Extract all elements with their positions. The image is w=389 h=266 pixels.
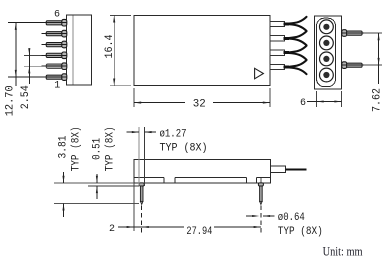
dim 3.81 upper leader: [63, 172, 65, 183]
socket hole 3: [320, 52, 334, 66]
top pin row 1 pad: [270, 21, 285, 26]
connector pin B lead: [347, 63, 363, 67]
side pin right lead: [260, 186, 263, 201]
top pin row 4 wire stem: [284, 66, 290, 69]
dim 2 extension body edge: [133, 183, 135, 231]
dim 27.94 arrow left: [142, 226, 149, 228]
top pin row 3 pad: [270, 50, 285, 55]
dim 2 span line: [134, 226, 142, 228]
top view body: [134, 15, 270, 85]
dim 0.64 right leader: [263, 215, 275, 217]
svg-text:3.81: 3.81: [57, 136, 69, 159]
dim 16.4 extension bottom: [110, 85, 131, 87]
dim 2 arrow right-pointing: [127, 226, 134, 228]
dim 2.54 extension bottom: [24, 65, 42, 67]
dim 12.70 line: [15, 23, 17, 86]
svg-text:0.51: 0.51: [91, 138, 103, 160]
dim 27.94 line right: [214, 226, 261, 228]
svg-text:2.54: 2.54: [20, 85, 32, 109]
top pin row 1 wire upper: [289, 17, 307, 24]
dim 1.27 extension right: [143, 127, 145, 186]
pin 2 centerline overlay: [42, 65, 67, 67]
dim 3.81 arrow up: [62, 203, 64, 210]
pin 1 collar: [62, 74, 67, 81]
top pin row 2 wire lower: [289, 39, 307, 46]
top pin row 3 wire stem: [284, 51, 290, 54]
pin 1 centerline overlay: [8, 76, 66, 78]
dim 0.64 arrow left-pointing: [263, 215, 270, 217]
top pin row 1 wire stem: [284, 22, 290, 25]
side view seam middle: [175, 176, 247, 178]
dim 0.51 typ text: [104, 126, 116, 171]
socket hole 2: [320, 36, 334, 50]
notch left wall 2: [174, 177, 176, 182]
pin 5 centerline overlay: [42, 33, 67, 35]
dim 0.51 arrow up: [96, 186, 98, 193]
svg-text:12.70: 12.70: [5, 85, 17, 116]
dim 16.4 arrow down: [113, 79, 115, 86]
dim 6 line: [307, 101, 342, 103]
dim 27.94 arrow right: [254, 226, 261, 228]
pin 2 lead: [46, 64, 62, 68]
left view body: [66, 15, 91, 85]
dim 3.81 arrow down: [62, 176, 64, 183]
side pin right dashed centerline: [260, 206, 262, 234]
dim 6 extension right: [341, 91, 343, 107]
pin 6 centerline overlay: [8, 22, 66, 24]
connector pin B centerline overlay: [342, 64, 366, 66]
dim 1.27 arrow right-pointing: [132, 131, 139, 133]
pin 4 centerline overlay: [42, 44, 67, 46]
svg-text:TYP (8X): TYP (8X): [71, 126, 83, 171]
connector pin B centerline: [342, 64, 366, 66]
side pin left lead: [140, 186, 143, 201]
connector insert: [317, 18, 336, 87]
top pin row 3 wire lower: [289, 53, 307, 60]
dim 3.81 lower leader: [63, 203, 65, 217]
dim 32 extension left: [133, 88, 135, 107]
pin 4 centerline: [42, 44, 67, 46]
svg-text:Unit: mm: Unit: mm: [323, 243, 363, 258]
socket hole 1: [320, 20, 334, 34]
pin 1 lead: [46, 75, 62, 79]
pin 3 centerline: [42, 54, 67, 56]
notch right wall: [246, 177, 248, 182]
top pin row 1 wire lower: [289, 24, 307, 31]
extension line pin tip: [54, 202, 139, 204]
top pin row 4 pad: [270, 65, 285, 70]
dim 0.51 upper leader: [96, 174, 98, 183]
dim 32 line right: [213, 102, 270, 104]
dim 32 arrow left: [134, 102, 141, 104]
side view seam right: [257, 176, 271, 178]
svg-text:TYP (8X): TYP (8X): [278, 226, 323, 238]
dim 16.4 arrow up: [113, 15, 115, 22]
dim 2.54 arrow up: [28, 66, 30, 73]
svg-text:7.62: 7.62: [371, 88, 383, 112]
extension line collar bottom: [88, 185, 139, 187]
connector pin B collar: [342, 62, 347, 69]
svg-text:1: 1: [54, 81, 60, 92]
pin 4 collar: [62, 41, 67, 48]
socket hole 4: [320, 68, 334, 82]
dim 1.27 leader left: [127, 131, 139, 133]
dim 32 line left: [134, 102, 185, 104]
svg-text:16.4: 16.4: [104, 35, 116, 59]
left view inner seam line: [72, 15, 74, 84]
pin 4 lead: [46, 43, 62, 47]
dim 2.54 line: [28, 49, 30, 85]
pin 5 centerline: [42, 33, 67, 35]
fiber boot: [271, 166, 286, 172]
svg-text:6: 6: [54, 10, 60, 21]
svg-text:27.94: 27.94: [186, 226, 212, 238]
side view seam left: [134, 176, 164, 178]
pin 3 lead: [46, 53, 62, 57]
pin 2 collar: [62, 63, 67, 70]
dim 0.51 text: [91, 138, 103, 160]
svg-text:6: 6: [300, 98, 306, 109]
dim 6 arrow left: [317, 100, 324, 102]
top pin row 4 wire lower: [289, 67, 307, 74]
top pin row 2 wire upper: [289, 31, 307, 38]
svg-text:ø1.27: ø1.27: [160, 128, 187, 140]
dim 0.64 left leader: [246, 215, 253, 217]
svg-text:2: 2: [109, 224, 115, 235]
dim 16.4 extension top: [110, 14, 131, 16]
svg-text:ø0.64: ø0.64: [278, 212, 305, 224]
dim 32 arrow right: [263, 102, 270, 104]
dim 6 arrow right: [334, 100, 341, 102]
fiber pigtail: [286, 168, 307, 170]
dim 16.4 line: [113, 15, 115, 85]
dim 2.54 extension top: [24, 54, 42, 56]
connector body: [315, 16, 342, 89]
dim 16.4 text: [104, 35, 116, 59]
pin 2 centerline: [42, 65, 67, 67]
dim 7.62 arrow down: [378, 58, 380, 65]
dim 7.62 arrow up: [378, 33, 380, 40]
pin 3 collar: [62, 52, 67, 59]
pin 6 lead: [46, 21, 62, 25]
side pin left tip: [140, 201, 143, 204]
svg-text:TYP (8X): TYP (8X): [104, 126, 116, 171]
dim 12.70 arrow down: [15, 70, 17, 77]
dim 12.70 arrow up: [15, 23, 17, 30]
connector pin A centerline: [342, 32, 366, 34]
pin 6 centerline: [8, 22, 66, 24]
dim 3.81 typ text: [71, 126, 83, 171]
dim 1.27 leader right: [144, 131, 156, 133]
side pin right stub centerline: [260, 178, 262, 183]
top pin row 4 wire upper: [289, 60, 307, 67]
dim 1.27 arrow left-pointing: [144, 131, 151, 133]
side pin left collar: [139, 183, 144, 186]
svg-text:TYP (8X): TYP (8X): [160, 142, 208, 154]
pin 3 centerline overlay: [42, 54, 67, 56]
dim 0.64 arrow right-pointing: [252, 215, 259, 217]
connector pin A lead: [347, 31, 363, 35]
dim 2 leader: [118, 226, 134, 228]
pin1 marker triangle: [255, 68, 264, 79]
pin 5 collar: [62, 30, 67, 37]
side pin right collar: [258, 183, 263, 186]
notch left wall: [163, 177, 165, 182]
side pin right tip: [260, 201, 263, 204]
pin 1 centerline: [8, 76, 66, 78]
dim 1.27 extension left: [138, 127, 140, 186]
dim 2.54 text: [20, 85, 32, 109]
dim 0.51 lower leader: [96, 186, 98, 199]
top pin row 3 wire upper: [289, 46, 307, 53]
pin 5 lead: [46, 32, 62, 36]
dim 7.62 extension bottom: [364, 64, 382, 66]
connector pin A centerline overlay: [342, 32, 366, 34]
dim 7.62 extension top: [364, 32, 382, 34]
dim 3.81 text: [57, 136, 69, 159]
extension line body bottom left: [54, 182, 134, 184]
dim 27.94 line left: [142, 226, 184, 228]
svg-text:32: 32: [193, 99, 206, 111]
top pin row 2 pad: [270, 36, 285, 41]
pin 6 collar: [62, 19, 67, 26]
dim 32 extension right: [269, 88, 271, 107]
dim 12.70 text: [5, 85, 17, 116]
dim 0.51 arrow down: [96, 176, 98, 183]
side view body: [134, 160, 271, 183]
dim 6 extension left: [316, 91, 318, 107]
side pin left dashed centerline: [141, 206, 143, 236]
dim 7.62 line: [378, 33, 380, 84]
notch right wall 2: [256, 177, 258, 182]
dim 2.54 arrow down: [28, 48, 30, 55]
top pin row 2 wire stem: [284, 37, 290, 40]
connector pin A collar: [342, 30, 347, 37]
dim 7.62 text: [371, 88, 383, 112]
